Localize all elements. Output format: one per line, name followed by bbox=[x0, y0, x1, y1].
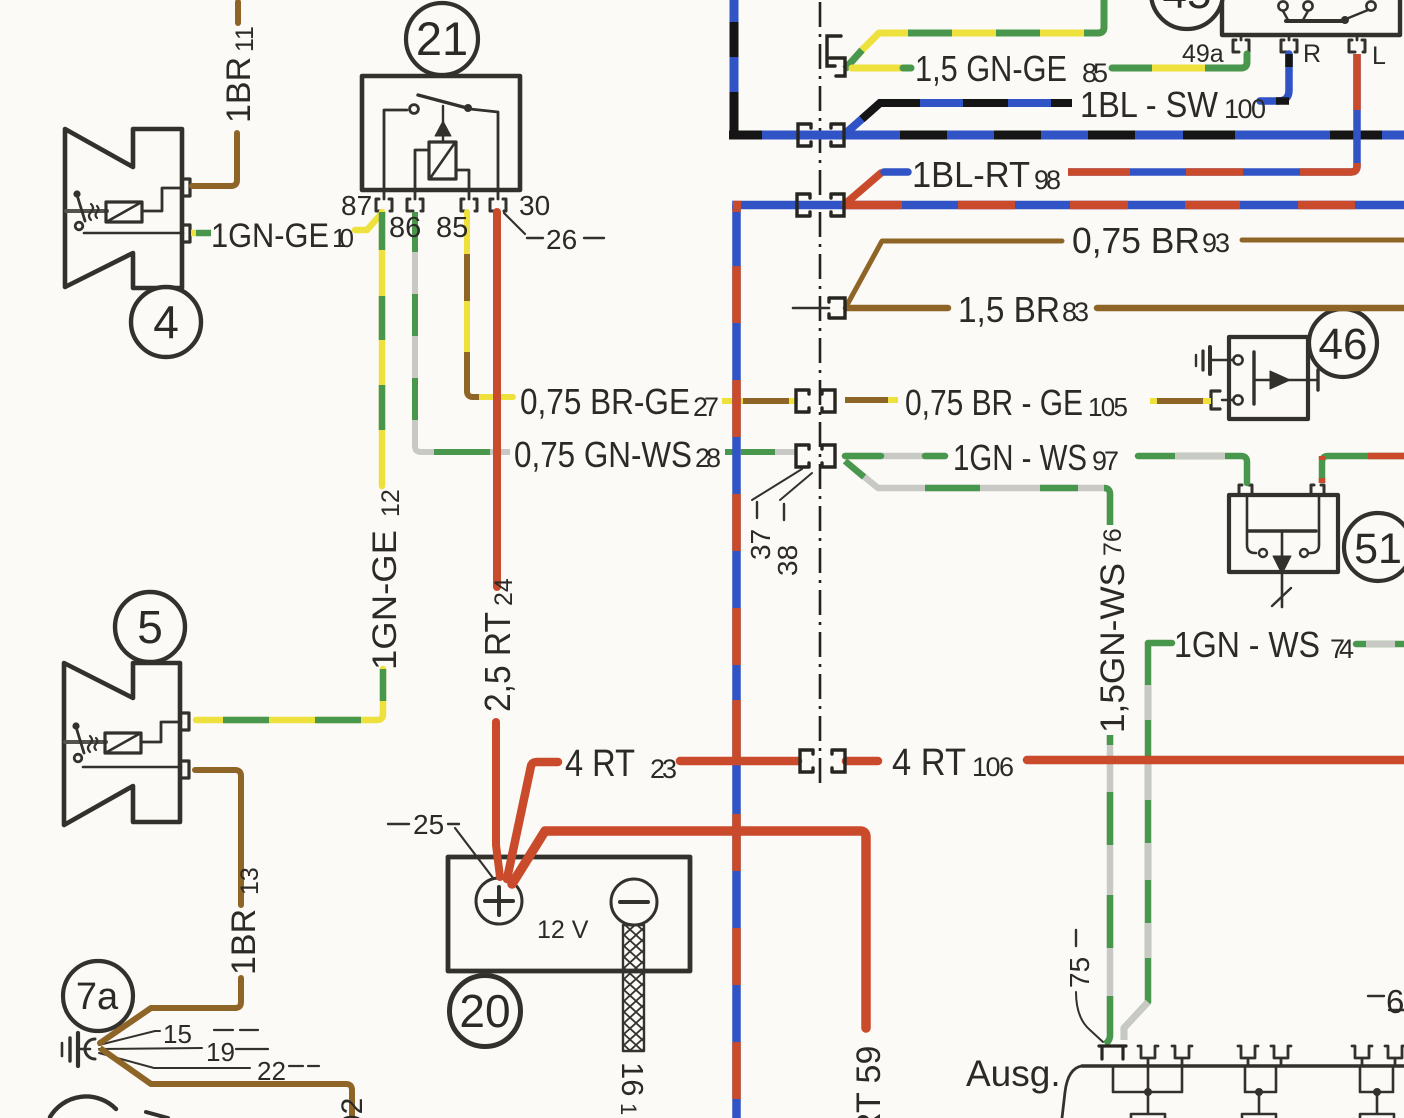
svg-text:16: 16 bbox=[615, 1062, 650, 1096]
wire to unit 51 right pin bbox=[1322, 456, 1404, 483]
svg-text:1GN-GE: 1GN-GE bbox=[366, 530, 404, 670]
battery plus terminal bbox=[476, 878, 522, 924]
unit 51 box bbox=[1229, 495, 1338, 572]
blue-red bus horizontal bbox=[732, 201, 1404, 210]
svg-text:93: 93 bbox=[1202, 228, 1230, 258]
blue-red bus vertical bbox=[732, 205, 741, 1118]
wire 4 RT 106 bbox=[1027, 756, 1404, 765]
connector pair row 205 bbox=[797, 194, 810, 216]
svg-text:30: 30 bbox=[519, 190, 550, 221]
relay 21 coil 85 branch bbox=[456, 170, 469, 190]
groups injected below bbox=[819, 2, 822, 786]
wire brown from 7a down right (92) bbox=[100, 1048, 352, 1118]
relay pin stubs bbox=[384, 190, 498, 199]
main harness dash-dot line bbox=[819, 2, 822, 786]
horn 5 upper pin bracket bbox=[182, 713, 189, 730]
svg-text:1BR: 1BR bbox=[225, 909, 263, 975]
horn 5 inner mechanism bbox=[65, 722, 181, 767]
svg-text:23: 23 bbox=[650, 754, 677, 784]
7a fan line 15 bbox=[99, 1031, 160, 1045]
svg-text:1,5 GN-GE: 1,5 GN-GE bbox=[915, 48, 1067, 89]
svg-text:24: 24 bbox=[490, 578, 518, 606]
wire 1,5GN-WS 76 branch diagonal bbox=[845, 461, 1110, 525]
svg-text:15: 15 bbox=[163, 1019, 192, 1049]
pin bracket L bbox=[1349, 40, 1365, 52]
unit 45 internals bbox=[1278, 1, 1287, 10]
wire 1BR 11 lower segment to horn 4 bbox=[192, 133, 237, 186]
leader 25 bbox=[388, 823, 459, 825]
svg-text:12: 12 bbox=[377, 489, 405, 517]
svg-text:1BR: 1BR bbox=[220, 57, 258, 123]
control unit 45 box bbox=[1222, 0, 1400, 35]
leader to 26 bbox=[504, 213, 525, 234]
relay pin bracket 85 bbox=[461, 199, 477, 211]
svg-text:51: 51 bbox=[1354, 525, 1402, 573]
fuse box internals bbox=[1113, 1066, 1394, 1118]
wire 2,5 RT 24 lower to battery bbox=[496, 722, 500, 877]
svg-text:19: 19 bbox=[206, 1037, 235, 1067]
svg-text:RT 59: RT 59 bbox=[850, 1046, 888, 1118]
horn 4 body bbox=[65, 129, 182, 288]
battery minus terminal bbox=[611, 879, 657, 925]
svg-text:6: 6 bbox=[1386, 983, 1404, 1020]
7a fan line 22 bbox=[99, 1053, 250, 1068]
unit 51 internals bbox=[1248, 529, 1316, 532]
svg-text:105: 105 bbox=[1088, 392, 1128, 422]
horn 4 circle 4 bbox=[131, 287, 201, 357]
wire 1BL-RT 98 to pin L bbox=[1068, 54, 1357, 172]
unit 51 pin brackets bbox=[1239, 485, 1252, 495]
svg-text:26: 26 bbox=[546, 224, 577, 255]
wire 1GN-WS 97 stub bbox=[845, 453, 945, 460]
svg-text:49a: 49a bbox=[1182, 40, 1224, 68]
unit 51 circle bbox=[1344, 513, 1404, 581]
wire 1BR 13 from horn 5 bbox=[195, 770, 241, 905]
svg-text:13: 13 bbox=[236, 867, 264, 895]
wire 1GN-WS 97 right of label bbox=[1138, 456, 1247, 483]
partial circle bottom-left bbox=[50, 1096, 116, 1117]
blue-black bus vertical bbox=[730, 0, 739, 135]
leaders 37 38 bbox=[752, 469, 812, 500]
wire 0,75 BR-GE 27 right of label bbox=[722, 398, 798, 404]
svg-text:100: 100 bbox=[1224, 94, 1266, 124]
pin bracket 49a bbox=[1233, 40, 1249, 52]
svg-text:20: 20 bbox=[459, 985, 510, 1037]
wire 0,75 BR-GE 27 from relay pin 85 bbox=[467, 212, 513, 397]
relay 21 coil 86 branch bbox=[415, 150, 429, 190]
svg-text:83: 83 bbox=[1062, 297, 1089, 327]
wire 1,5GN-WS 76 vertical lower bbox=[1105, 735, 1110, 1044]
relay pin bracket 86 bbox=[407, 199, 423, 211]
wire 1GN-WS 74 right of label bbox=[1356, 641, 1404, 648]
connector pair row 455 bbox=[796, 445, 809, 467]
svg-text:1: 1 bbox=[616, 1103, 641, 1115]
wire 1BL-RT 98 diagonal from connector bbox=[845, 173, 881, 204]
wire 1GN-GE 12 from relay pin 87 bbox=[379, 212, 386, 486]
svg-text:1BL-RT: 1BL-RT bbox=[912, 154, 1030, 195]
horn 5 circle 5 bbox=[115, 592, 185, 662]
battery 20 box bbox=[448, 857, 690, 971]
svg-text:12 V: 12 V bbox=[537, 916, 589, 944]
svg-text:28: 28 bbox=[695, 443, 721, 473]
svg-text:21: 21 bbox=[416, 12, 468, 65]
svg-text:75: 75 bbox=[1064, 957, 1095, 988]
horn 4 upper pin bracket bbox=[183, 179, 190, 196]
relay 21 armature stem bbox=[442, 106, 444, 122]
svg-text:5: 5 bbox=[137, 601, 163, 653]
wire 1GN-GE 10 stub at horn 4 bbox=[191, 230, 196, 237]
blue-black bus horizontal bbox=[730, 131, 1404, 140]
7a fan line 19 bbox=[99, 1048, 202, 1049]
wire 1,5 GN-GE 85 stub bbox=[852, 65, 906, 72]
wire RT 59 battery feed bbox=[512, 831, 866, 1028]
wire 1BL-RT 98 stub bbox=[884, 168, 908, 176]
svg-text:10: 10 bbox=[332, 223, 354, 253]
svg-text:45: 45 bbox=[1163, 0, 1212, 18]
connector pair row 36/67 bbox=[827, 36, 841, 66]
pin bracket R bbox=[1281, 40, 1297, 52]
svg-text:0,75 BR-GE: 0,75 BR-GE bbox=[520, 381, 690, 422]
svg-text:27: 27 bbox=[693, 392, 719, 422]
svg-text:7a: 7a bbox=[76, 976, 119, 1018]
svg-text:0,75 BR: 0,75 BR bbox=[1072, 220, 1200, 261]
relay 21 box bbox=[362, 76, 520, 190]
battery circle 20 bbox=[450, 976, 521, 1047]
svg-text:1GN - WS: 1GN - WS bbox=[953, 437, 1087, 478]
wire 1BR 13 lower to stud 7a bbox=[100, 978, 241, 1043]
unit 46 circle bbox=[1309, 309, 1377, 377]
svg-text:1,5GN-WS: 1,5GN-WS bbox=[1094, 563, 1132, 733]
relay 21 circle bbox=[406, 3, 478, 75]
wire 0,75 BR-GE 105 bbox=[845, 397, 898, 403]
relay 21 coil bbox=[429, 142, 456, 179]
unit 46 box bbox=[1229, 337, 1308, 419]
svg-text:22: 22 bbox=[257, 1056, 286, 1086]
svg-text:4: 4 bbox=[153, 296, 179, 348]
relay pin bracket 30 bbox=[490, 199, 506, 211]
wire 1GN-GE 10 stub to relay pin 87 bbox=[355, 214, 381, 230]
svg-text:87: 87 bbox=[341, 190, 372, 221]
wire 1GN-GE 12 lower part to horn 5 bbox=[196, 669, 383, 720]
svg-text:1,5 BR: 1,5 BR bbox=[958, 289, 1060, 330]
relay 21 contact 30 branch bbox=[470, 109, 498, 190]
svg-text:11: 11 bbox=[231, 26, 259, 52]
unit 45 pin stubs bbox=[1241, 35, 1357, 40]
relay 21 contact 87 branch bbox=[384, 110, 407, 190]
wire 1GN-WS 74 left stub bbox=[1148, 640, 1172, 647]
terminal stud 7a ground bars bbox=[61, 1043, 64, 1056]
wire 2,5 RT 24 upper bbox=[493, 212, 501, 587]
wire 0,75 GN-WS 28 from relay pin 86 bbox=[415, 212, 510, 452]
horn 4 lower pin bracket bbox=[183, 225, 190, 242]
svg-text:98: 98 bbox=[1034, 165, 1061, 195]
svg-text:76: 76 bbox=[1099, 528, 1127, 556]
unit 46 plate and diode bbox=[1252, 352, 1255, 404]
svg-text:Ausg.: Ausg. bbox=[966, 1053, 1061, 1094]
svg-text:0,75 BR - GE: 0,75 BR - GE bbox=[905, 382, 1083, 423]
svg-text:0,75 GN-WS: 0,75 GN-WS bbox=[514, 434, 692, 475]
wire 1BL-SW 100 diagonal branch bbox=[846, 103, 1072, 133]
wire 1,5 BR 83 bbox=[846, 305, 948, 312]
horn 5 lower pin bracket bbox=[182, 761, 189, 778]
wire 1,5 GN-GE 85 to pin 49a bbox=[1112, 54, 1247, 68]
relay pin bracket 87 bbox=[376, 199, 392, 211]
svg-text:4 RT: 4 RT bbox=[565, 743, 635, 785]
battery ground strap 16 bbox=[623, 925, 644, 1051]
svg-text:97: 97 bbox=[1092, 446, 1119, 476]
unit 46 ground symbol bbox=[1195, 355, 1197, 366]
svg-text:1GN-GE: 1GN-GE bbox=[211, 217, 329, 255]
relay 21 coil arrow bbox=[435, 121, 451, 136]
wire 1,5 GN-GE 85 upper branch bbox=[845, 0, 1104, 69]
wire 0,75 BR 93 bbox=[847, 241, 1062, 305]
svg-text:2,5 RT: 2,5 RT bbox=[477, 612, 518, 712]
terminal stud 7a circle bbox=[63, 961, 133, 1031]
svg-text:1BL - SW: 1BL - SW bbox=[1080, 84, 1218, 125]
svg-text:1GN - WS: 1GN - WS bbox=[1174, 624, 1320, 665]
wire 4 RT 106 stub bbox=[846, 757, 878, 766]
wire 4 RT 23 left stub bbox=[507, 762, 558, 879]
tick at connector 83 bbox=[793, 307, 829, 310]
connector pair row 400 bbox=[796, 390, 809, 412]
horn 5 body bbox=[64, 663, 180, 825]
fuse box Ausg. outline bbox=[1082, 1064, 1404, 1068]
svg-text:38: 38 bbox=[772, 545, 803, 576]
wire 1GN-WS 74 vertical bbox=[1124, 643, 1148, 1040]
leader 75 bbox=[1075, 930, 1077, 946]
svg-text:L: L bbox=[1372, 42, 1386, 70]
connector pair row 760 bbox=[800, 750, 813, 772]
connector single row 308 bbox=[829, 298, 845, 318]
svg-text:85: 85 bbox=[436, 212, 468, 244]
wire 4 RT 23 to connector bbox=[680, 757, 798, 766]
svg-text:46: 46 bbox=[1319, 320, 1368, 369]
svg-text:R: R bbox=[1303, 40, 1321, 68]
connector pair row 133 bbox=[798, 124, 811, 146]
svg-text:92: 92 bbox=[336, 1098, 369, 1118]
horn 4 inner mechanism bbox=[66, 188, 183, 233]
svg-text:4 RT: 4 RT bbox=[892, 742, 966, 784]
fuse box pins bbox=[1138, 1046, 1404, 1066]
svg-text:106: 106 bbox=[972, 752, 1014, 782]
svg-text:25: 25 bbox=[413, 809, 444, 840]
svg-text:74: 74 bbox=[1330, 634, 1354, 664]
wire 1BR 11 upper segment bbox=[235, 2, 241, 23]
connector at fuse box 75 bbox=[1099, 1046, 1126, 1059]
relay 21 switch arm bbox=[418, 95, 467, 108]
svg-text:86: 86 bbox=[389, 212, 421, 244]
label 6 dashes top right bbox=[1368, 996, 1404, 1010]
wire 1BL-SW 100 pin R stub bbox=[1260, 54, 1289, 101]
unit 46 lower pin bracket bbox=[1211, 391, 1220, 409]
terminal stud 7a stud bbox=[80, 1048, 90, 1051]
